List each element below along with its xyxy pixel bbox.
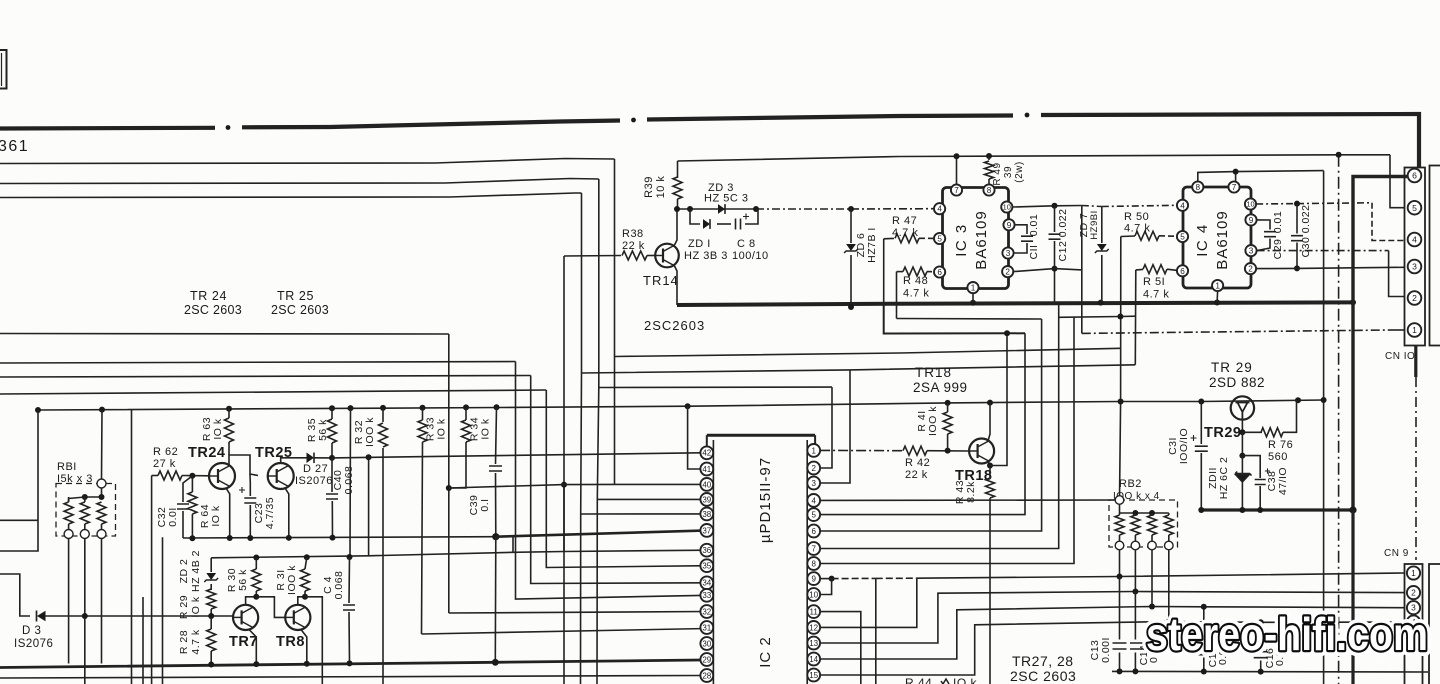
junction thick CN10 column / ground	[1349, 506, 1356, 513]
svg-text:IO k: IO k	[480, 418, 492, 440]
svg-text:IO k: IO k	[436, 418, 448, 440]
svg-text:27 k: 27 k	[153, 458, 176, 470]
svg-text:ZD 2: ZD 2	[178, 559, 190, 584]
svg-text:8: 8	[1196, 183, 1201, 192]
svg-text:2: 2	[1005, 268, 1010, 277]
junction rail2 x=102	[99, 407, 105, 413]
wire TR18 emitter to riser x=1007	[990, 333, 1007, 465]
RB1 top circle	[97, 479, 106, 488]
svg-text:5: 5	[1412, 203, 1417, 213]
svg-text:34: 34	[702, 579, 711, 588]
junction C15 top	[1201, 604, 1207, 610]
junction thick bus / CN10 pin6 column	[1350, 299, 1356, 305]
junction ZD11 bottom	[1239, 507, 1245, 513]
wire IC2 pin38 horizontal	[581, 513, 707, 515]
svg-text:0.00I: 0.00I	[1100, 637, 1112, 663]
junction R31/TR8	[302, 594, 308, 600]
rail TR7 top y=557	[211, 552, 564, 558]
RB2 bottom circles	[1115, 541, 1124, 550]
RB1 bottom circles	[64, 530, 73, 539]
svg-text:3: 3	[1412, 262, 1417, 272]
svg-text:10: 10	[809, 590, 818, 599]
wire IC2 pin3 riser	[820, 370, 850, 483]
thick wire TR29 ground	[1201, 508, 1353, 511]
wire H4 line1 to RB2 column	[615, 348, 1121, 356]
junction rail2 x=1323.6	[1321, 397, 1327, 403]
svg-text:3: 3	[811, 479, 816, 488]
wire line3 vertical x=581	[581, 193, 583, 373]
wire TR14 base from left	[563, 256, 565, 552]
svg-text:IS2076: IS2076	[295, 475, 333, 487]
svg-text:1: 1	[1215, 281, 1220, 290]
IC U IC3 BA6109 body	[943, 188, 1009, 289]
svg-text:4: 4	[937, 205, 942, 214]
wire IC2 pin15 staircase (CN9 pin4)	[820, 622, 1404, 676]
watermark stereo-hifi.com	[1146, 608, 1428, 660]
svg-text:HZ9BI: HZ9BI	[1089, 210, 1100, 239]
thick column CN10 down to TR29 ground	[1351, 302, 1354, 510]
wire A-left (R48 net) to pin6 riser	[897, 318, 1042, 321]
junction rail2 x=990	[987, 400, 993, 406]
svg-text:5: 5	[811, 510, 816, 519]
svg-text:R 29: R 29	[178, 595, 190, 619]
wire TR14 collector up	[674, 209, 677, 246]
RB1 resistor 1	[68, 497, 70, 502]
svg-text:32: 32	[702, 607, 711, 616]
svg-text:R 48: R 48	[903, 275, 928, 287]
junction RB2-3/CN9-3 wire	[1149, 604, 1155, 610]
svg-text:µPD15II-97: µPD15II-97	[757, 457, 774, 543]
svg-text:TR 25: TR 25	[277, 289, 314, 303]
svg-text:56 k: 56 k	[317, 419, 329, 441]
svg-text:22 k: 22 k	[622, 240, 645, 252]
wire IC3 pin10 net	[1012, 206, 1081, 208]
diode D3	[36, 611, 38, 622]
junction rail666 x=256.3	[253, 661, 259, 667]
svg-text:3: 3	[1249, 247, 1254, 256]
wire TR8 emitter	[301, 630, 307, 664]
junction rail2 x=383	[380, 405, 386, 411]
wire TR14 emitter down to bus	[674, 265, 677, 305]
vertical x=162 lower	[162, 537, 164, 684]
connector CN9 body	[1405, 564, 1423, 684]
junction RB1 bar right	[99, 494, 105, 500]
junction C31 bottom	[1198, 507, 1204, 513]
junction C38 bottom	[1257, 507, 1263, 513]
svg-text:IO k: IO k	[190, 596, 202, 618]
svg-text:HZ 3B 3: HZ 3B 3	[684, 250, 728, 262]
junction rail2 x=947.6	[945, 400, 951, 406]
transistor TR25	[268, 463, 294, 489]
capacitor C16	[1260, 622, 1262, 649]
svg-text:560: 560	[1268, 451, 1288, 463]
svg-text:29: 29	[702, 655, 711, 664]
wire TR24 emitter	[226, 488, 230, 538]
junction RB1 bar	[82, 494, 88, 500]
rail y=666 long thick	[0, 660, 700, 668]
wire to IC2 pin33 horizontal	[0, 362, 516, 364]
wire line2 to IC2 pin2 riser	[599, 386, 832, 388]
dash-dot divider vertical x=1338	[1338, 155, 1340, 684]
wire IC4 pin7/8 column down x=1324	[1323, 171, 1325, 684]
svg-text:C30 0.022: C30 0.022	[1300, 205, 1312, 258]
thick rail to IC2 pin37	[496, 530, 707, 536]
wire IC2 pin39 horizontal	[597, 498, 707, 500]
svg-text:HZ 6C 2: HZ 6C 2	[1218, 457, 1230, 500]
svg-text:RBI: RBI	[57, 461, 77, 473]
junction rail2 x=1201.3	[1198, 399, 1204, 405]
capacitor C14	[1134, 592, 1136, 640]
wire TR24 base from left vertical x=151	[151, 476, 153, 684]
wire IC2 pin7 riser	[820, 303, 1059, 548]
wire line1 vertical x=615	[614, 159, 616, 484]
svg-text:4.7 k: 4.7 k	[1124, 223, 1150, 235]
capacitor C32	[183, 476, 192, 502]
junction rail538 x=332.5	[330, 535, 336, 541]
IC3 pin 8 / R49	[986, 153, 992, 159]
wire R51 column down to H5	[1134, 270, 1137, 365]
right edge connector lower partial box	[1429, 564, 1440, 684]
wire to D3 from left	[0, 574, 30, 616]
wire IC2 pin41 riser	[688, 406, 701, 469]
wire IC2 pin35 vertical	[546, 390, 707, 568]
thick stub below CN10	[1414, 346, 1417, 378]
wire TR7collector to TR8 base	[256, 597, 285, 618]
svg-text:3: 3	[1006, 249, 1011, 258]
svg-text:0.01: 0.01	[1028, 214, 1040, 236]
junction C30 bottom	[1294, 265, 1300, 271]
resistor R38	[622, 251, 647, 260]
junction C12 top	[1052, 203, 1058, 209]
svg-text:56 k: 56 k	[237, 569, 249, 591]
wire TR29 emitter to R76	[1242, 431, 1262, 433]
svg-text:38: 38	[702, 510, 711, 519]
wire IC3 pin2 net	[1013, 269, 1082, 272]
CN10 pins	[1408, 169, 1422, 183]
wire bundle line 2	[0, 179, 599, 184]
junction divider top	[1336, 152, 1342, 158]
thick column down from ground joint	[1351, 510, 1354, 684]
svg-text:35: 35	[702, 562, 711, 571]
junction R29/R28/TR7 base	[208, 613, 214, 619]
wires below RB1	[68, 539, 70, 664]
svg-text:5: 5	[1180, 232, 1185, 241]
svg-text:4: 4	[1412, 235, 1417, 245]
svg-text:2: 2	[1412, 293, 1417, 303]
capacitor C29	[1257, 220, 1270, 230]
thick power bus right segment with corner down to CN10	[1041, 114, 1419, 167]
svg-text:13: 13	[809, 639, 818, 648]
wires below RB2 to CN9 nets	[1119, 550, 1121, 577]
riser x=513 to pin37 rail	[512, 536, 514, 552]
IC U IC4 BA6109 body	[1183, 187, 1251, 288]
wire IC2 pin2 riser vertical	[820, 387, 832, 468]
capacitor C4	[348, 557, 351, 603]
wire left stub y=520	[0, 519, 38, 521]
svg-text:IC 3: IC 3	[953, 223, 970, 257]
svg-text:33: 33	[702, 591, 711, 600]
transistor TR7	[233, 605, 258, 630]
svg-text:0.01: 0.01	[1272, 211, 1284, 233]
resistor R35	[331, 408, 333, 419]
capacitor C38 electrolytic	[1242, 456, 1260, 478]
svg-text:2SA 999: 2SA 999	[913, 380, 968, 395]
junction C12 bottom	[1052, 266, 1058, 272]
RB2 top circle	[1115, 496, 1124, 505]
wire IC2 pin31 from R33 column	[422, 629, 708, 635]
svg-text:TR25: TR25	[255, 445, 292, 461]
svg-text:10 k: 10 k	[655, 176, 667, 199]
wire RB1 top to rail2	[101, 410, 104, 479]
wire IC2 pin8 riser	[820, 317, 1074, 564]
IC3 pin circles	[951, 184, 962, 195]
junction riser1007/B1	[1004, 330, 1010, 336]
svg-text:TR 24: TR 24	[190, 289, 227, 303]
svg-text:IOO k: IOO k	[927, 406, 939, 436]
svg-text:IO k: IO k	[212, 418, 224, 440]
resistor network RB2 box	[1109, 500, 1178, 547]
connector CN10 body	[1405, 168, 1426, 346]
junction rail2 x=38	[35, 407, 41, 413]
IC2 right edge	[806, 440, 808, 684]
svg-text:1: 1	[1411, 568, 1416, 578]
svg-text:CN 9: CN 9	[1384, 548, 1409, 559]
svg-text:1: 1	[971, 284, 976, 293]
svg-text:IC 2: IC 2	[757, 636, 774, 668]
svg-text:2SD 882: 2SD 882	[1209, 375, 1265, 390]
wire vertical x=449	[448, 334, 450, 613]
svg-text:I5k x 3: I5k x 3	[57, 473, 93, 485]
svg-text:37: 37	[702, 526, 711, 535]
rail2 long horizontal R63/R35/R32/R33/R34/C39/R41 tops	[38, 400, 1324, 410]
wire A-right (C12/pin7 node) to RB2 column	[1059, 316, 1136, 317]
resistor R64	[191, 476, 193, 492]
wire CN10 pin5 drop	[1390, 155, 1404, 208]
junction pin9/pin10	[829, 576, 835, 582]
resistor R30	[255, 558, 257, 570]
svg-text:4.7 k: 4.7 k	[892, 227, 918, 239]
junction RB2-1/CN9-1 wire	[1117, 574, 1123, 580]
zener ZD6	[850, 209, 852, 243]
junction C30 top	[1294, 201, 1300, 207]
junction rail538 x=288.8	[286, 535, 292, 541]
svg-text:TR14: TR14	[643, 273, 679, 288]
junction rail2 x=332	[329, 405, 335, 411]
RB2 inner top bar	[1120, 512, 1169, 514]
wire vertical x=143	[142, 597, 144, 684]
svg-text:HZ7B I: HZ7B I	[866, 227, 878, 263]
junction R41 bottom	[945, 448, 951, 454]
svg-text:10: 10	[1003, 203, 1011, 212]
transistor TR18	[969, 439, 994, 464]
wire IC4 pin3 net to CN10 pin2	[1257, 250, 1389, 252]
junction x449/pin40	[446, 485, 452, 491]
svg-text:IOO k: IOO k	[286, 565, 298, 595]
svg-text:IOO k: IOO k	[364, 417, 376, 447]
svg-text:0.068: 0.068	[343, 466, 355, 495]
wire H3 to CN10 pin1	[1082, 330, 1390, 333]
IC3 pin 7 stub	[956, 156, 958, 184]
svg-text:C12 0.022: C12 0.022	[1057, 209, 1069, 262]
wire IC2 pin40 horizontal	[449, 484, 707, 488]
resistor R39	[677, 161, 679, 178]
svg-text:8: 8	[987, 186, 992, 195]
svg-text:7: 7	[811, 544, 816, 553]
wire x=876 vertical down	[875, 578, 877, 684]
wire TR7 emitter	[249, 630, 256, 665]
svg-text:2SC 2603: 2SC 2603	[1010, 668, 1076, 684]
junction ZD1 branch	[687, 206, 693, 212]
svg-text:5: 5	[937, 234, 942, 243]
svg-text:TR24: TR24	[188, 445, 225, 461]
junction R62/TR24 base	[189, 473, 195, 479]
svg-text:CII: CII	[1028, 245, 1040, 260]
svg-text:(2w): (2w)	[1014, 161, 1025, 182]
svg-text:R 62: R 62	[153, 446, 178, 458]
junction rail666 x=349.5	[347, 660, 353, 666]
resistor R32	[382, 408, 384, 422]
svg-text:6: 6	[1412, 171, 1417, 181]
capacitor C30	[1296, 204, 1298, 234]
svg-text:HZ 5C 3: HZ 5C 3	[704, 193, 748, 205]
svg-text:BA6109: BA6109	[973, 210, 990, 269]
junction R39/ZD3	[674, 206, 680, 212]
rail emitter y=538	[183, 537, 496, 538]
svg-text:1: 1	[1412, 325, 1417, 335]
wire line2 down to pin39	[597, 388, 599, 684]
wire IC2 pin5 riser	[820, 333, 1025, 514]
wire TR25 emitter	[285, 488, 289, 538]
wire ZD1-C8 lower branch	[690, 209, 700, 224]
svg-text:TR8: TR8	[276, 634, 305, 650]
svg-text:C29: C29	[1272, 239, 1284, 260]
resistor R50	[1121, 235, 1135, 238]
junction rail2 x=1298	[1295, 397, 1301, 403]
junction ZD11/C38	[1239, 453, 1245, 459]
junction rail2 x=496.5	[494, 404, 500, 410]
RB1 resistor 2	[80, 502, 89, 524]
svg-text:2: 2	[1411, 588, 1416, 598]
resistor R63	[225, 418, 234, 442]
svg-text:7: 7	[954, 186, 959, 195]
svg-text:36: 36	[702, 546, 711, 555]
svg-text:R39: R39	[643, 176, 655, 198]
wire vertical pin10-to-bus x=1082	[1081, 206, 1083, 334]
svg-text:11: 11	[810, 607, 819, 616]
resistor R41	[947, 403, 949, 412]
junction IC3 pin1 on thick bus	[970, 300, 976, 306]
svg-text:R 50: R 50	[1124, 211, 1149, 223]
svg-text:40: 40	[702, 480, 711, 489]
wire IC4 pin1 to bus	[1216, 291, 1219, 302]
IC2 left pins 42-28	[700, 446, 713, 459]
resistor R44 partial zigzag	[941, 679, 949, 684]
svg-text:361: 361	[0, 138, 29, 155]
wire B1 thick (pin5 riser) y=333.5	[884, 304, 1025, 334]
svg-text:41: 41	[702, 465, 711, 474]
wire to IC2 pin34 horizontal	[0, 376, 531, 378]
wire IC2 pin33 vertical+horizontal	[516, 362, 708, 600]
wire IC4 pins 7/8 top net	[1198, 171, 1324, 183]
thick wire CN10 pin6 to left column	[1353, 177, 1407, 303]
svg-text:R 44: R 44	[905, 676, 932, 684]
resistor R47	[884, 237, 894, 239]
resistor R33	[422, 408, 424, 420]
IC2 left edge	[712, 440, 714, 684]
svg-text:7: 7	[1232, 183, 1237, 192]
junction ZD6 bottom on thick bus	[848, 304, 854, 310]
svg-text:14: 14	[809, 655, 818, 664]
wire IC3 pin1 to bus	[972, 293, 974, 303]
svg-text:9: 9	[1007, 221, 1012, 230]
capacitor C31 electrolytic	[1200, 402, 1202, 445]
junction rail2 x=1120.6	[1118, 399, 1124, 405]
transistor TR14	[655, 244, 679, 268]
junction RB2-2/CN9-2 wire	[1132, 589, 1138, 595]
wire C39 column to bottom rail	[494, 537, 497, 663]
wire H5 line3 to R51 column	[582, 365, 1136, 373]
capacitor C40	[331, 458, 333, 492]
resistor R31	[305, 557, 307, 569]
wire TR29 emitter down	[1241, 420, 1243, 433]
wire IC2 pin11 down	[820, 612, 861, 684]
wire x=368 vertical D27net to TR7 rail	[368, 457, 370, 555]
zener ZD3	[718, 204, 725, 214]
svg-text:R38: R38	[622, 228, 644, 240]
svg-text:2SC 2603: 2SC 2603	[271, 303, 329, 317]
junction rail2 x=466	[463, 404, 469, 410]
svg-text:IC 4: IC 4	[1194, 223, 1211, 257]
wire IC2 pin6 riser	[820, 319, 1042, 531]
wire TR25 collector / D27 anode	[281, 458, 307, 463]
IC2 right pins 1-15	[807, 444, 820, 457]
svg-text:R 47: R 47	[892, 215, 917, 227]
RB1 inner bar	[68, 499, 70, 503]
IC U IC2 uPD1511-97 top edge	[707, 434, 815, 437]
junction IC4 pin7 riser	[1233, 169, 1239, 175]
svg-text:TR27, 28: TR27, 28	[1012, 653, 1074, 669]
junction IC4 pin1 on thick bus	[1214, 300, 1220, 306]
svg-text:IOO/IO: IOO/IO	[1178, 428, 1190, 464]
junction R31 top	[304, 554, 310, 560]
junction rail666 x=306.8	[304, 661, 310, 667]
junction rail538/C39 thick	[492, 533, 499, 540]
zener ZD2	[210, 558, 212, 572]
svg-text:4.7/35: 4.7/35	[264, 497, 276, 529]
svg-text:6: 6	[811, 527, 816, 536]
wire TR8 node right down	[305, 597, 322, 684]
thick bus lower (TR14 emitter rail)	[677, 302, 1353, 305]
junction TR18 emitter	[987, 463, 993, 469]
svg-text:4.7 k: 4.7 k	[1143, 289, 1169, 301]
capacitor C12	[1054, 206, 1056, 232]
svg-text:12: 12	[809, 623, 818, 632]
top-left partial box	[0, 50, 7, 89]
wire TR18 emitter down	[988, 461, 990, 466]
resistor R51	[1136, 268, 1143, 271]
wire TR18 collector up to rail2	[988, 403, 990, 441]
capacitor C13	[1119, 577, 1121, 640]
junction rail538 x=192.4	[189, 535, 195, 541]
svg-text:0.068: 0.068	[333, 571, 345, 600]
junction A-right/RB2 column	[1117, 314, 1123, 320]
junction D3/RB1 column	[82, 613, 88, 619]
svg-text:R 42: R 42	[905, 457, 930, 469]
svg-text:stereo-hifi.com: stereo-hifi.com	[1146, 608, 1428, 660]
wire to IC2 pin35 horizontal	[0, 390, 546, 394]
wire IC2 pin12 staircase	[820, 578, 917, 627]
right edge connector partial box	[1430, 166, 1440, 346]
